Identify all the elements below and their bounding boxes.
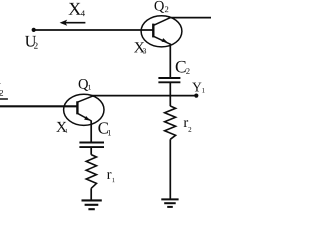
wire r2 to ground <box>169 139 171 199</box>
label Q1 <box>79 79 89 91</box>
wire Q1 emitter down to C1 <box>90 121 92 143</box>
wire C2 to junction <box>169 82 171 95</box>
wire Q2 emitter down to C2 <box>169 44 171 79</box>
wire left edge to Q1 base <box>0 105 77 107</box>
node U2 <box>32 28 36 32</box>
wire U2 node to Q2 base <box>34 29 154 31</box>
wire r1 to ground <box>90 188 92 200</box>
transistor Q2 <box>141 16 182 47</box>
label X4 <box>69 3 81 15</box>
wire C1 to r1 <box>90 147 92 155</box>
label C1 <box>98 122 108 133</box>
ground under r1 <box>82 200 102 209</box>
label Y1 <box>192 83 201 92</box>
label X3 <box>134 42 145 52</box>
label U2 <box>25 36 36 47</box>
wire Q2 collector to right edge <box>170 17 211 19</box>
resistor r1 <box>86 155 96 189</box>
arrow X4 (signal direction, points left) <box>64 22 85 24</box>
capacitor C1 <box>79 143 104 148</box>
label Q2 <box>154 1 164 13</box>
label X1 <box>56 122 66 132</box>
ground under r2 <box>161 199 178 207</box>
resistor r2 <box>165 106 176 139</box>
cropped arrow at left edge <box>0 98 8 100</box>
transistor Q1 <box>64 94 104 125</box>
node Y1 <box>194 94 198 98</box>
label C2 <box>176 61 186 73</box>
wire Q1 collector to node Y1 <box>92 95 196 97</box>
label r1 <box>107 172 111 179</box>
wire junction to r2 <box>169 96 171 107</box>
capacitor C2 <box>158 78 180 82</box>
cropped label X2 at left edge <box>0 83 1 94</box>
label r2 <box>184 120 188 127</box>
